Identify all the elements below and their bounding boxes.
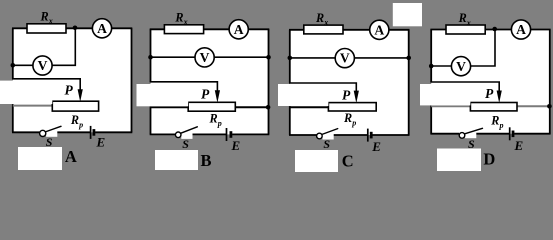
wire: circuit A right conductor [131, 28, 133, 132]
label Rx, circuit D [458, 11, 471, 27]
label E, circuit B [231, 138, 241, 153]
junction: pot right terminal node, circuit B [266, 105, 271, 110]
wire: pot right terminal to right conductor, circuit B [235, 106, 268, 108]
wire: voltmeter branch, circuit B [151, 56, 269, 58]
battery E, circuit B [227, 128, 231, 141]
svg-text:R: R [174, 10, 183, 24]
label P, circuit D [485, 86, 494, 101]
wire: pot left terminal to left conductor, circuit D [431, 105, 470, 107]
svg-text:p: p [217, 119, 222, 128]
wire: circuit C right conductor [408, 30, 410, 135]
label Rx, circuit A [40, 9, 53, 25]
svg-text:x: x [323, 18, 328, 27]
svg-text:R: R [209, 111, 218, 125]
circuit D background [431, 30, 550, 134]
wire: circuit D top conductor [430, 29, 550, 31]
resistor Rx, circuit D [446, 25, 485, 34]
wire: circuit D bottom conductor (battery to right corner) [514, 133, 550, 135]
wire: circuit A left conductor lower segment [12, 104, 14, 132]
switch S, circuit B [175, 127, 197, 138]
wire: circuit C bottom conductor (battery to right corner) [372, 134, 409, 136]
wire: voltmeter branch, circuit D [431, 30, 495, 67]
wire: pot left terminal to left conductor, circuit A [13, 105, 53, 107]
svg-text:A: A [516, 22, 526, 37]
svg-text:B: B [201, 151, 212, 170]
label P, circuit B [201, 87, 210, 102]
label S, circuit B [182, 137, 189, 151]
wire: circuit B bottom conductor (battery to right corner) [232, 133, 269, 135]
svg-text:x: x [466, 18, 471, 27]
svg-text:R: R [40, 9, 49, 23]
wire: pot right terminal to right conductor, circuit D [517, 105, 550, 107]
wire: circuit D bottom conductor (switch to battery) [473, 133, 510, 135]
option letter B [201, 151, 212, 170]
svg-text:A: A [97, 21, 107, 36]
switch S, circuit C [317, 129, 338, 139]
label E, circuit D [514, 138, 524, 153]
wiper arrow P, circuit B [215, 90, 220, 103]
ammeter, circuit A [92, 19, 111, 38]
svg-text:A: A [65, 147, 77, 166]
svg-text:A: A [234, 22, 244, 37]
wire: circuit A bottom conductor (left corner to switch) [12, 131, 40, 133]
blank box (open switch gap) circuit B [181, 133, 192, 139]
blank box (answer area) below circuit B [155, 150, 198, 170]
svg-text:p: p [351, 118, 356, 127]
label Rx, circuit B [174, 10, 187, 26]
junction: voltmeter branch left node, circuit B [148, 55, 153, 60]
wire: circuit D left conductor upper segment [430, 30, 432, 83]
wire: circuit C bottom conductor (left corner to switch) [289, 134, 317, 136]
svg-text:D: D [483, 149, 495, 168]
svg-text:C: C [342, 152, 354, 171]
svg-text:R: R [70, 113, 79, 127]
svg-text:S: S [182, 137, 189, 151]
wire: circuit C left conductor lower segment [289, 106, 291, 135]
label Rp, circuit A [70, 113, 83, 130]
label Rp, circuit D [490, 113, 503, 130]
wire: circuit D right conductor [549, 30, 551, 134]
wire: circuit A top conductor [12, 27, 132, 29]
svg-text:R: R [315, 11, 324, 25]
label S, circuit C [323, 137, 330, 151]
svg-text:P: P [201, 87, 210, 102]
junction: voltmeter branch left node, circuit D [429, 64, 434, 69]
svg-text:E: E [371, 139, 381, 154]
rheostat (potentiometer) Rp, circuit B [188, 102, 235, 111]
wire: circuit B left conductor upper segment [150, 29, 152, 82]
wiper arrow P, circuit D [497, 91, 502, 104]
label S, circuit D [468, 137, 475, 151]
blank box (answer area) below circuit A [18, 147, 62, 170]
blank box (answer area) below circuit C [295, 150, 338, 172]
ammeter, circuit C [370, 20, 389, 39]
junction: pot right terminal node, circuit D [547, 104, 552, 109]
battery E, circuit A [91, 126, 94, 139]
junction: voltmeter branch left node, circuit A [11, 63, 16, 68]
svg-text:V: V [340, 51, 350, 66]
battery E, circuit D [510, 127, 513, 140]
wire: wiper branch, circuit A [12, 79, 80, 90]
wire: circuit D left conductor lower segment [430, 106, 432, 134]
svg-text:R: R [343, 111, 352, 125]
svg-text:V: V [38, 58, 48, 73]
ammeter, circuit D [511, 20, 530, 39]
circuit C background [290, 30, 409, 135]
wiper arrow P, circuit C [354, 91, 359, 104]
circuit B background [151, 29, 269, 134]
blank box (erased text) left of circuit B [137, 84, 189, 106]
resistor Rx, circuit B [164, 25, 203, 34]
option letter A [65, 147, 77, 166]
svg-text:x: x [183, 18, 188, 27]
ammeter, circuit B [229, 20, 248, 39]
svg-text:E: E [514, 138, 524, 153]
wire: circuit C bottom conductor (switch to battery) [330, 134, 368, 136]
wire: pot left terminal to left conductor, circuit B [151, 106, 189, 108]
junction: voltmeter branch right node, circuit B [266, 55, 271, 60]
voltmeter, circuit B [195, 48, 214, 67]
svg-text:R: R [490, 113, 499, 127]
svg-text:P: P [342, 87, 351, 102]
svg-text:P: P [485, 86, 494, 101]
wire: circuit C left conductor upper segment [289, 30, 291, 83]
blank box (answer area) below circuit D [437, 149, 481, 172]
svg-text:P: P [65, 82, 74, 97]
svg-text:S: S [323, 137, 330, 151]
junction: voltmeter branch right node, circuit C [406, 56, 411, 61]
circuit A background [13, 28, 132, 132]
blank box (erased text) left of circuit A [0, 81, 52, 104]
svg-text:x: x [48, 17, 53, 26]
rheostat (potentiometer) Rp, circuit D [470, 103, 517, 111]
svg-text:E: E [96, 134, 106, 149]
voltmeter, circuit D [451, 57, 470, 76]
svg-text:V: V [200, 50, 210, 65]
wire: circuit A bottom conductor (battery to right corner) [95, 131, 132, 133]
resistor Rx, circuit C [304, 25, 343, 34]
wire: circuit B bottom conductor (left corner to switch) [150, 133, 176, 135]
rheostat (potentiometer) Rp, circuit A [52, 101, 98, 111]
wire: circuit A left conductor upper segment [12, 28, 14, 79]
junction: voltmeter branch left node, circuit C [288, 56, 293, 61]
label Rp, circuit C [343, 111, 356, 128]
junction: node between Rx and ammeter, circuit D [492, 27, 497, 32]
svg-text:V: V [456, 59, 466, 74]
label Rx, circuit C [315, 11, 328, 27]
blank box (open switch gap) circuit D [465, 132, 476, 138]
wire: circuit C top conductor [289, 29, 410, 31]
label P, circuit C [342, 87, 351, 102]
wire: circuit B bottom conductor (switch to battery) [189, 133, 227, 135]
svg-text:p: p [499, 121, 504, 130]
svg-text:A: A [374, 22, 384, 37]
wiper arrow P, circuit A [78, 89, 83, 102]
svg-text:p: p [78, 121, 83, 130]
switch S, circuit D [459, 128, 482, 138]
svg-text:S: S [46, 135, 53, 149]
switch S, circuit A [40, 126, 61, 136]
wire: wiper branch, circuit B [150, 82, 218, 92]
svg-text:R: R [458, 11, 467, 25]
voltmeter, circuit C [335, 49, 354, 68]
blank box (erased text) left of circuit C [278, 84, 328, 106]
label E, circuit C [371, 139, 381, 154]
wire: voltmeter branch, circuit C [290, 57, 409, 59]
battery E, circuit C [368, 129, 371, 142]
svg-text:E: E [231, 138, 241, 153]
label S, circuit A [46, 135, 53, 149]
wire: circuit B left conductor lower segment [150, 106, 152, 134]
wire: wiper branch, circuit C [289, 83, 356, 92]
wire: circuit B top conductor [150, 28, 270, 30]
wire: circuit D bottom conductor (left corner to switch) [430, 133, 459, 135]
wire: voltmeter branch, circuit A [13, 28, 76, 65]
label Rp, circuit B [209, 111, 222, 128]
wire: pot left terminal to left conductor, circuit C [290, 106, 329, 108]
blank box (open switch gap) circuit A [46, 131, 57, 137]
blank box (erased text) left of circuit D [420, 84, 470, 105]
label E, circuit A [96, 134, 106, 149]
voltmeter, circuit A [33, 56, 52, 75]
wire: circuit A bottom conductor (switch to battery) [54, 131, 91, 133]
option letter C [342, 152, 354, 171]
junction: node between Rx and ammeter, circuit A [73, 26, 78, 31]
option letter D [483, 149, 495, 168]
label P, circuit A [65, 82, 74, 97]
resistor Rx, circuit A [27, 24, 66, 33]
wire: circuit B right conductor [268, 29, 270, 134]
blank box (erased label above circuit C) [393, 3, 422, 26]
rheostat (potentiometer) Rp, circuit C [328, 103, 376, 111]
blank box (open switch gap) circuit C [323, 134, 334, 140]
wire: wiper branch, circuit D [430, 82, 499, 92]
